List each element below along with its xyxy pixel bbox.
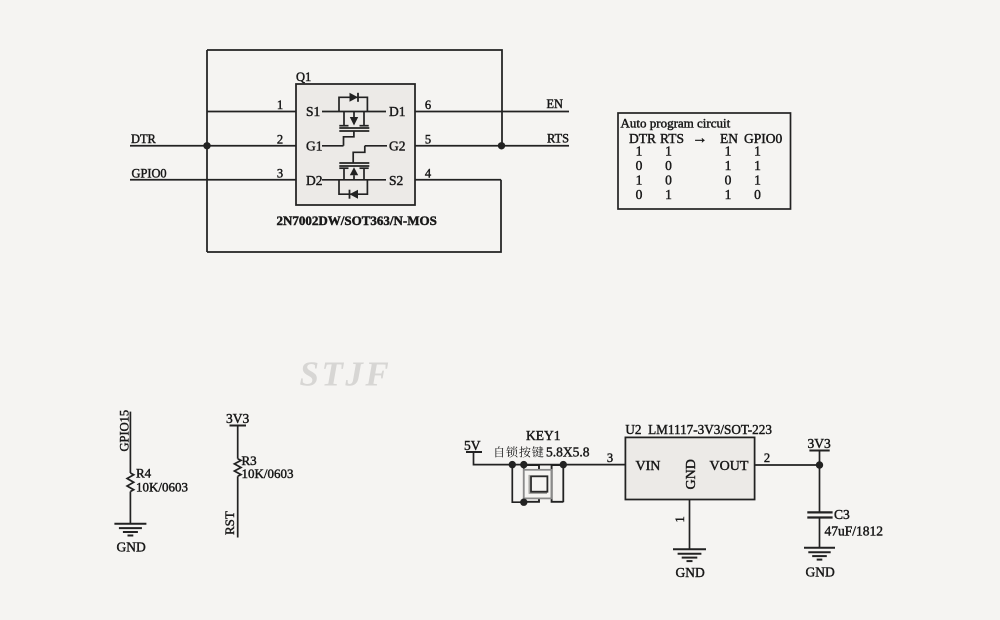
svg-text:1: 1 xyxy=(725,143,732,158)
svg-text:G2: G2 xyxy=(389,139,406,154)
svg-text:0: 0 xyxy=(725,172,732,187)
svg-text:2: 2 xyxy=(277,132,283,146)
svg-text:→: → xyxy=(692,130,708,147)
svg-text:Q1: Q1 xyxy=(296,70,311,84)
svg-text:1: 1 xyxy=(725,187,732,202)
svg-text:RTS: RTS xyxy=(547,132,569,146)
svg-text:C3: C3 xyxy=(834,507,850,522)
svg-text:RST: RST xyxy=(222,511,237,535)
svg-text:GPIO0: GPIO0 xyxy=(132,166,167,180)
svg-text:VIN: VIN xyxy=(636,459,661,474)
svg-text:4: 4 xyxy=(425,166,432,180)
svg-text:D2: D2 xyxy=(306,173,323,188)
svg-text:5: 5 xyxy=(425,132,431,146)
svg-text:2N7002DW/SOT363/N-MOS: 2N7002DW/SOT363/N-MOS xyxy=(277,213,437,228)
svg-text:1: 1 xyxy=(277,98,283,112)
svg-text:1: 1 xyxy=(665,143,672,158)
svg-text:D1: D1 xyxy=(389,104,406,119)
svg-text:GND: GND xyxy=(806,565,835,580)
svg-text:10K/0603: 10K/0603 xyxy=(136,480,188,495)
svg-text:1: 1 xyxy=(754,158,761,173)
svg-text:0: 0 xyxy=(636,158,643,173)
svg-text:0: 0 xyxy=(636,187,643,202)
svg-text:5V: 5V xyxy=(464,438,481,453)
svg-text:3V3: 3V3 xyxy=(808,436,831,451)
svg-text:KEY1: KEY1 xyxy=(526,428,561,443)
svg-text:S2: S2 xyxy=(389,173,403,188)
svg-text:STJF: STJF xyxy=(300,355,392,394)
svg-text:5.8X5.8: 5.8X5.8 xyxy=(546,445,590,460)
svg-text:1: 1 xyxy=(636,143,643,158)
svg-text:3: 3 xyxy=(607,451,613,465)
svg-text:EN: EN xyxy=(546,97,563,111)
svg-text:Auto program circuit: Auto program circuit xyxy=(621,116,731,131)
svg-text:1: 1 xyxy=(754,172,761,187)
svg-text:R4: R4 xyxy=(136,466,152,481)
svg-text:GPIO0: GPIO0 xyxy=(744,131,783,146)
svg-text:DTR: DTR xyxy=(131,132,157,146)
svg-text:GPIO15: GPIO15 xyxy=(117,410,131,452)
svg-text:G1: G1 xyxy=(306,139,323,154)
svg-text:U2 LM1117-3V3/SOT-223: U2 LM1117-3V3/SOT-223 xyxy=(625,422,772,437)
svg-text:GND: GND xyxy=(117,540,146,555)
svg-text:3V3: 3V3 xyxy=(226,411,249,426)
svg-text:S1: S1 xyxy=(306,104,320,119)
svg-text:1: 1 xyxy=(665,187,672,202)
svg-text:1: 1 xyxy=(754,143,761,158)
svg-text:RTS: RTS xyxy=(660,131,684,146)
svg-text:1: 1 xyxy=(636,172,643,187)
svg-text:1: 1 xyxy=(725,158,732,173)
svg-text:0: 0 xyxy=(665,158,672,173)
svg-text:0: 0 xyxy=(665,172,672,187)
svg-text:VOUT: VOUT xyxy=(710,459,749,474)
svg-text:2: 2 xyxy=(764,451,770,465)
svg-text:DTR: DTR xyxy=(629,131,656,146)
svg-text:10K/0603: 10K/0603 xyxy=(242,466,294,481)
svg-text:GND: GND xyxy=(676,565,705,580)
svg-text:47uF/1812: 47uF/1812 xyxy=(825,524,884,539)
svg-text:0: 0 xyxy=(754,187,761,202)
svg-text:6: 6 xyxy=(425,98,431,112)
svg-text:GND: GND xyxy=(684,459,699,489)
svg-text:3: 3 xyxy=(277,166,283,180)
svg-text:1: 1 xyxy=(673,516,687,522)
